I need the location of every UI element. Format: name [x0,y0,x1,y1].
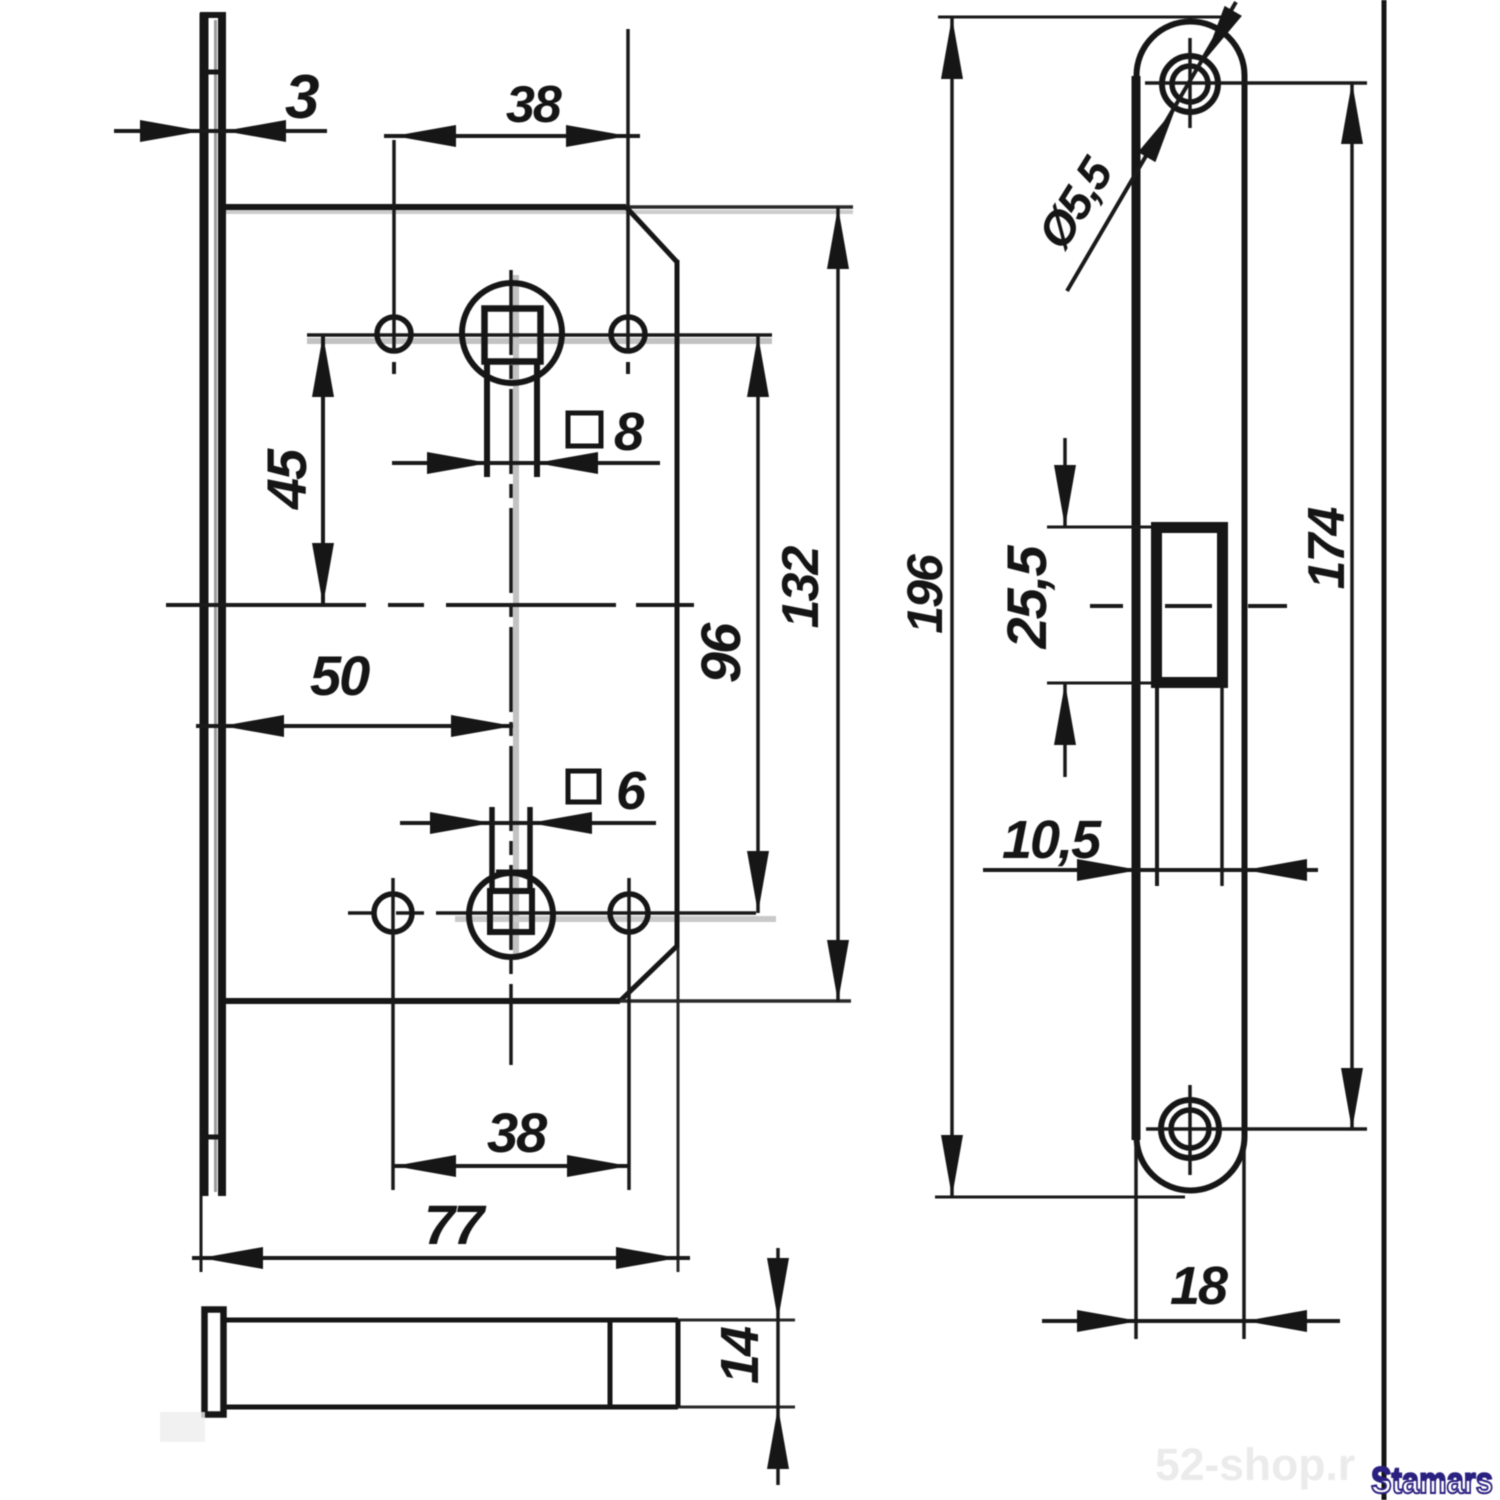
svg-text:38: 38 [506,76,562,134]
lower spindle slot right line [527,807,533,891]
diameter 5,5 lower-left arrow [1138,107,1176,162]
latch box left wall extension down [1155,688,1159,886]
svg-text:6: 6 [616,761,647,821]
svg-text:25,5: 25,5 [995,545,1058,650]
bottom screw hole inner circle [1171,1110,1209,1148]
dimension 6 square symbol [568,771,599,802]
bottom view right edge [676,1320,681,1407]
bottom view body bottom extension [678,1406,795,1409]
faceplate tick upper [206,70,224,75]
dimension 25,5 upper line [1063,438,1067,527]
dimension 38 bottom line [394,1164,629,1168]
dimension 38 bottom left arrow [394,1155,456,1177]
upper right fixing hole vertical line / 38 extension [626,29,630,353]
dimension 77 line [192,1256,690,1260]
diameter 5,5 upper-right arrow [1204,6,1242,61]
dimension 38 top left arrow [394,125,456,147]
svg-text:96: 96 [689,622,752,683]
ghost shadow of horizontal centerline upper spindle [307,338,772,344]
dimension 8 square symbol [568,413,601,446]
dimension 174 line [1350,82,1354,1130]
svg-text:3: 3 [285,63,319,132]
horizontal centerline through upper spindle [307,333,772,337]
dimension 132 top arrow [827,207,849,269]
lock body right edge [675,260,680,948]
dimension 45 line [321,335,325,605]
top screw hole inner circle [1172,66,1208,102]
strike plate stadium outline [1137,22,1245,1191]
dimension 6 line [400,821,656,825]
bottom view body top line [226,1318,678,1323]
dimension 45 top arrow [312,335,334,397]
dimension 196 line [950,17,954,1197]
upper spindle slot left line [484,361,490,477]
dimension 14 top arrow [767,1258,789,1320]
svg-text:14: 14 [710,1326,770,1384]
latch centerline dashes [1090,604,1287,608]
svg-text:45: 45 [255,448,318,510]
top screw hole horizontal centerline / 174 extension [1145,81,1367,85]
svg-text:174: 174 [1298,507,1356,590]
dimension 8 line [392,461,660,465]
upper spindle follower circle [462,283,562,383]
lower right fixing hole vertical line / 38 extension [627,878,631,1190]
svg-text:132: 132 [772,546,830,629]
dimension 6 left arrow [430,812,492,834]
dimension 18 left arrow [1077,1310,1139,1332]
bottom view body top extension [678,1319,795,1322]
dimension 77 left extension [200,1196,203,1272]
dimension 25,5 bottom arrow [1054,683,1076,745]
ghost shadow of lower horizontal centerline [455,916,776,922]
dimension 25,5 top extension [1047,526,1151,529]
dimension 50 right arrow [451,715,513,737]
strike plate left edge thick line [1132,76,1141,1140]
lower spindle slot tick [496,870,528,875]
dimension 132 bottom arrow [827,940,849,1002]
dimension 8 left arrow [427,452,489,474]
upper left fixing hole [377,317,411,351]
faceplate front view left line [200,13,209,1196]
dimension 25,5 top arrow [1054,465,1076,527]
dimension 132 line [836,207,840,1002]
lock body top edge [222,204,626,210]
svg-text:77: 77 [424,1193,487,1256]
faint gray blob bottom left of faceplate [160,1412,205,1442]
dimension 38 bottom right arrow [567,1155,629,1177]
dimension 8 right arrow [536,452,598,474]
bottom view body bottom line [226,1405,678,1410]
dimension 10,5 left arrow [1077,859,1139,881]
dimension 196 bottom arrow [941,1135,963,1197]
dimension 174 bottom arrow [1341,1068,1363,1130]
upper spindle slot right line [534,361,540,477]
lock body bottom edge [222,998,620,1004]
bottom view faceplate end [205,1310,224,1415]
vertical spindle centerline dash-dot [509,270,513,1065]
dimension 25,5 lower line [1063,683,1067,777]
dimension 18 right arrow [1245,1310,1307,1332]
dimension 50 line [196,724,513,728]
lock body bottom-right chamfer [620,946,677,1001]
dimension 14 bottom arrow [767,1407,789,1469]
diameter 5,5 leader line [1067,2,1236,291]
latch opening box [1157,528,1223,683]
horizontal centerline through lower spindle [348,911,776,915]
main horizontal centerline dash-dot [166,603,694,607]
dimension 38 top line [384,134,640,138]
dimension 50 left arrow [222,715,284,737]
dimension 96 bottom arrow [747,851,769,913]
upper right fixing hole [611,317,645,351]
top screw hole vertical tick [1188,38,1192,128]
faceplate middle gray line [214,20,217,1192]
dimension 77 left arrow [201,1247,263,1269]
dimension 196 top extension [938,16,1228,19]
lower spindle slot left line [489,807,495,891]
dimension 196 bottom extension [935,1196,1185,1199]
lock body right edge extension down to 77 dim [677,948,680,1272]
svg-text:10,5: 10,5 [1002,810,1102,870]
dimension 45 bottom arrow [312,543,334,605]
svg-text:38: 38 [487,1101,548,1164]
dimension 38 top right arrow [566,125,628,147]
bottom view inner vertical line [608,1320,613,1407]
dimension 10,5 right arrow [1245,859,1307,881]
dimension 18 line [1042,1319,1340,1323]
dimension 3 right arrow [224,120,286,142]
bottom screw hole outer circle [1161,1100,1219,1158]
lower spindle square hole 6mm [490,891,532,932]
bottom screw hole vertical tick [1188,1085,1192,1175]
dimension 3 left arrow [140,120,202,142]
lock body top edge extension to 132 dim [626,205,853,209]
faceplate front view right line [218,13,226,1196]
dimension 25,5 bottom extension [1047,682,1151,685]
lock body top-right chamfer [626,207,677,262]
latch box right wall extension down [1220,688,1224,886]
dimension 3 line [114,129,327,133]
svg-text:52-shop.r: 52-shop.r [1155,1439,1355,1490]
lower spindle follower circle [469,873,553,957]
svg-text:18: 18 [1170,1256,1228,1316]
bottom screw hole horizontal centerline / 174 extension [1146,1127,1367,1131]
dimension 96 top arrow [747,335,769,397]
dimension 96 line [756,335,760,913]
ghost shadow of vertical spindle centerline [513,275,519,960]
dimension 18 right extension [1242,1135,1246,1339]
top screw hole outer circle [1162,56,1218,112]
dimension 174 top arrow [1341,82,1363,144]
upper left fixing hole vertical line / 38 extension [392,140,396,353]
dimension 14 line [776,1248,780,1485]
lock body bottom edge extension to 132 dim [620,999,851,1003]
dimension 6 right arrow [530,812,592,834]
dimension 196 top arrow [941,17,963,79]
lower left fixing hole vertical line / 38 extension [391,878,395,1190]
faceplate tick lower [204,1135,224,1140]
lower right fixing hole [610,894,648,932]
svg-text:196: 196 [897,553,953,634]
upper left fixing hole dash below [392,362,396,374]
svg-text:8: 8 [614,402,644,462]
Stamars logo [1371,1460,1493,1500]
faceplate top cap [200,12,226,18]
lower left fixing hole [374,894,412,932]
upper spindle square hole 8mm [485,309,541,362]
svg-text:50: 50 [310,644,370,707]
dimension 18 left extension [1134,1140,1138,1339]
dimension 10,5 line [983,868,1318,872]
upper right fixing hole dash below [626,362,630,374]
dimension 77 right arrow [616,1247,678,1269]
ghost shadow of body top edge [222,210,853,214]
right border line [1382,0,1387,1500]
